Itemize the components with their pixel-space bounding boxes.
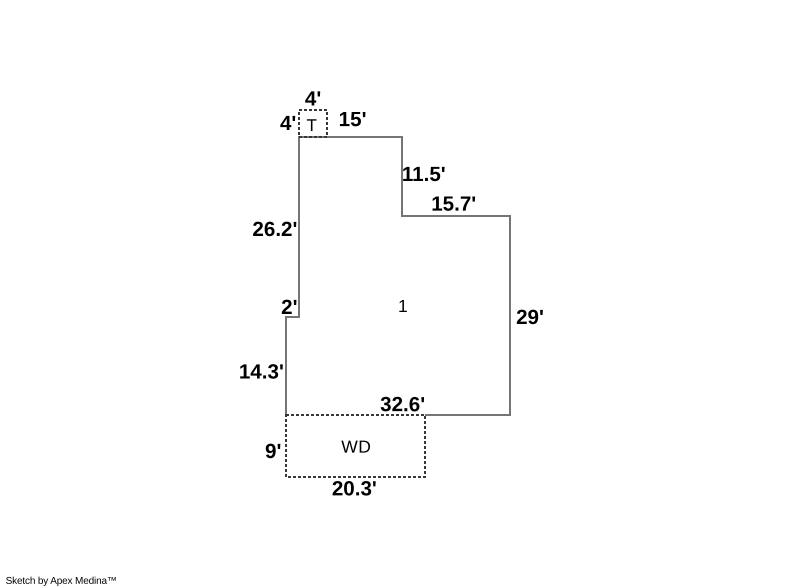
svg-text:15.7': 15.7'	[431, 193, 476, 216]
wood deck WD box (dashed)	[286, 415, 425, 477]
svg-text:Sketch by Apex Medina™: Sketch by Apex Medina™	[6, 576, 117, 587]
svg-text:15': 15'	[339, 108, 367, 131]
svg-text:WD: WD	[341, 437, 371, 457]
svg-text:9': 9'	[265, 440, 281, 463]
porch T box (dashed)	[299, 110, 327, 137]
svg-text:32.6': 32.6'	[380, 393, 425, 416]
main floor outline (solid walls)	[286, 137, 510, 415]
svg-text:4': 4'	[305, 87, 321, 110]
svg-text:29': 29'	[516, 306, 544, 329]
svg-text:20.3': 20.3'	[332, 477, 377, 500]
svg-text:1: 1	[398, 296, 408, 316]
svg-text:11.5': 11.5'	[402, 163, 446, 186]
svg-text:T: T	[307, 116, 317, 135]
svg-text:14.3': 14.3'	[239, 361, 284, 384]
svg-text:26.2': 26.2'	[252, 218, 297, 241]
svg-text:2': 2'	[281, 296, 297, 319]
svg-text:4': 4'	[280, 112, 296, 135]
